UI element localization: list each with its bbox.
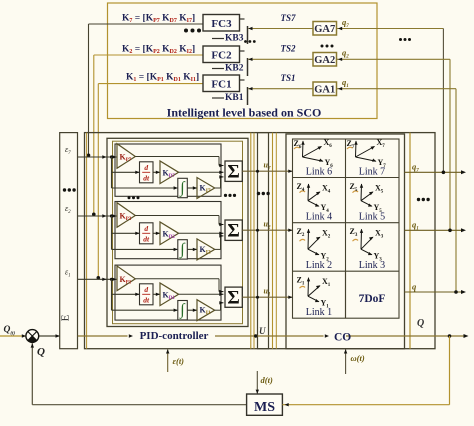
wire epsilon2 error input line (78, 214, 117, 217)
svg-text:Link 4: Link 4 (306, 212, 332, 223)
wire integrator to KI row 1 (187, 309, 197, 312)
wire olive channel line a (250, 133, 252, 349)
label Intelligent level based on SCO (167, 106, 322, 120)
wire link grid row divider 3 (293, 270, 400, 272)
wire integral path row 7 (112, 186, 178, 189)
svg-text:Σ: Σ (227, 288, 239, 309)
comparator summing junction (26, 330, 39, 343)
wire integrator to KI row 7 (187, 186, 197, 189)
wire TS2 tuning signal GA2 to KB2 (248, 58, 313, 61)
label U (259, 326, 266, 336)
wire epsilon7 error input line (78, 155, 117, 158)
svg-text:Intelligent level based on SCO: Intelligent level based on SCO (167, 106, 322, 120)
label 7DoF (359, 293, 386, 305)
label q7 at GA7 (342, 17, 349, 29)
svg-text:KB1: KB1 (225, 93, 244, 103)
block FC1 fuzzy controller (203, 75, 240, 92)
svg-text:PID-controller: PID-controller (140, 330, 209, 342)
amplifier KD1 (160, 283, 179, 306)
wire link grid row divider 2 (293, 222, 400, 224)
amplifier KI7 (197, 178, 215, 199)
block FC2 fuzzy controller (203, 46, 240, 63)
block integrator row 7 (178, 178, 188, 197)
label Qref (4, 325, 16, 337)
label K1 = [KP1 KD1 KI1] (126, 73, 199, 84)
label Link 1 (306, 307, 332, 318)
svg-text:CO: CO (334, 331, 351, 343)
summer Sigma row 7 (225, 161, 242, 183)
node Link 4 coordinate frame (297, 182, 331, 214)
wire FC2 output stub (240, 50, 245, 52)
svg-text:TS7: TS7 (280, 13, 296, 23)
wire branch vertical row 2 (111, 216, 113, 249)
node Link 5 coordinate frame (350, 182, 384, 214)
wire K7 parameter line from FC3 to PID input (87, 24, 203, 157)
wire FC3 output stub (240, 18, 245, 20)
box E error vector channel (60, 133, 78, 349)
wire d/dt to KD row 7 (153, 171, 160, 174)
label Link 7 (359, 166, 385, 177)
wire integral path row 1 (112, 309, 178, 312)
label q7 output (412, 162, 419, 174)
label q1 output (412, 220, 419, 232)
wire top feedback rectangle (intelligent level outer olive box) (108, 3, 378, 119)
label Q output (417, 318, 424, 329)
wire q1 feedback into GA1 (337, 87, 457, 292)
wire epsilon(t) stub (166, 349, 169, 372)
box PID inner frame (113, 141, 243, 324)
label omega(t) (351, 353, 365, 363)
svg-text:GA7: GA7 (314, 24, 335, 35)
label K7 = [KP7 KD7 KI7] (122, 14, 195, 25)
wire epsilon1 error input line (78, 278, 117, 281)
svg-text:FC2: FC2 (211, 50, 232, 62)
dots between GA7 and GA2 (321, 45, 334, 48)
block d/dt differentiator row 7 (140, 162, 154, 183)
wire Qref input (0, 334, 26, 337)
wire integral path row 2 (112, 248, 178, 251)
svg-text:TS2: TS2 (280, 44, 296, 54)
svg-text:7DoF: 7DoF (359, 293, 386, 305)
label TS7 (280, 13, 296, 23)
wire TS7 tuning signal GA7 to KB3 (248, 27, 313, 30)
dots under KB3 (244, 40, 256, 43)
wire olive companion line inside outer box (86, 133, 88, 349)
amplifier KP2 (117, 203, 135, 228)
svg-text:d: d (144, 285, 148, 294)
wire TS1 tuning signal GA1 to KB1 (248, 87, 313, 90)
wire link1 cell right edge (345, 271, 347, 318)
amplifier KI2 (197, 239, 215, 260)
wire KD2 output to sum (179, 232, 224, 235)
label q1 at GA1 (342, 77, 349, 89)
dots in U channel (257, 192, 270, 195)
wire q1 output line (405, 228, 467, 232)
wire KD1 output to sum (179, 293, 224, 296)
svg-text:d: d (144, 163, 148, 172)
label E rotated (60, 314, 72, 321)
summer Sigma row 1 (225, 287, 242, 309)
svg-text:Link 1: Link 1 (306, 307, 332, 318)
svg-text:dt: dt (143, 234, 150, 243)
svg-text:TS1: TS1 (280, 73, 295, 83)
svg-text:Link 5: Link 5 (359, 212, 385, 223)
wire FC1 output stub (240, 79, 245, 81)
label Link 6 (306, 166, 332, 177)
label KB3 knowledge base (212, 26, 248, 44)
label PID-controller (140, 330, 209, 342)
wire link grid row divider 1 (293, 177, 400, 179)
dots top right feedback (399, 38, 411, 41)
block d/dt differentiator row 2 (140, 223, 154, 244)
block FC3 fuzzy controller (203, 15, 240, 32)
label CO (334, 331, 351, 343)
svg-text:ω(t): ω(t) (351, 353, 365, 363)
label Link 2 (306, 260, 332, 271)
block integrator row 2 (178, 240, 188, 259)
node Link 2 coordinate frame (297, 227, 331, 262)
amplifier KI1 (197, 300, 215, 321)
wire q7 output line (405, 170, 467, 174)
wire KP1 output (135, 279, 223, 294)
wire integrator to KI row 2 (187, 248, 197, 251)
svg-text:U: U (259, 326, 266, 336)
label u2 (264, 220, 271, 231)
wire KP7 output (135, 157, 223, 168)
label Q feedback at junction (37, 346, 45, 358)
wire K1 parameter line from FC1 to PID input (97, 84, 204, 280)
label q output (412, 282, 417, 292)
svg-text:dt: dt (143, 295, 150, 304)
box U control vector channel (258, 133, 269, 349)
amplifier KD2 (160, 222, 179, 245)
wire u2 control line to CO (242, 229, 292, 232)
box PID-controller (107, 138, 248, 326)
wire feedback vertical into junction (31, 343, 34, 405)
svg-text:FC3: FC3 (211, 18, 232, 30)
svg-text:GA1: GA1 (314, 85, 335, 96)
label u1 (264, 287, 271, 298)
label Link 3 (359, 260, 385, 271)
wire KD7 output to sum (179, 171, 224, 174)
amplifier KD7 (160, 161, 179, 184)
block integrator row 1 (178, 301, 188, 320)
box CO controlled object (286, 134, 405, 349)
block GA7 genetic algorithm (313, 22, 337, 36)
svg-text:ε(t): ε(t) (173, 356, 185, 366)
label epsilon(t) (173, 356, 185, 366)
svg-text:E: E (60, 314, 72, 321)
label KB2 knowledge base (212, 58, 248, 76)
box PID group 2 frame (115, 202, 221, 259)
wire d/dt to KD row 1 (153, 293, 160, 296)
wire olive channel line b (253, 133, 255, 349)
wire q1 output line (405, 290, 467, 294)
wire q2 feedback into GA2 (337, 58, 451, 231)
svg-text:KB3: KB3 (225, 34, 244, 44)
node Link 3 coordinate frame (350, 227, 384, 262)
wire omega(t) stub (344, 349, 347, 374)
label epsilon2 (65, 204, 71, 215)
svg-text:Q: Q (37, 346, 45, 358)
svg-text:Σ: Σ (227, 221, 239, 242)
label u7 (264, 161, 271, 172)
node Link 7 coordinate frame (347, 138, 387, 169)
wire olive channel line d (275, 133, 277, 349)
label q2 at GA2 (342, 48, 349, 60)
wire branch vertical row 1 (111, 279, 113, 310)
box link grid (293, 139, 400, 318)
box PID group 1 frame (115, 265, 221, 320)
label epsilon1 (65, 267, 71, 278)
block MS measurement system (247, 394, 283, 415)
dots in E channel (63, 188, 76, 191)
wire d/dt to KD row 2 (153, 232, 160, 235)
wire u1 control line to CO (242, 296, 292, 299)
label TS2 (280, 44, 296, 54)
svg-text:d(t): d(t) (261, 375, 273, 385)
wire K2 parameter line from FC2 to PID input (92, 55, 203, 216)
svg-text:MS: MS (254, 400, 275, 415)
dots between PID groups left (128, 196, 140, 199)
label epsilon7 (65, 145, 71, 156)
wire branch vertical row 7 (111, 157, 113, 188)
wire olive channel line c (272, 133, 274, 349)
svg-text:d: d (144, 224, 148, 233)
wire d(t) stub (256, 371, 259, 394)
wire KP2 output (135, 216, 223, 227)
label K2 = [KP2 KD2 KI2] (122, 45, 195, 56)
box PID group 7 frame (115, 144, 221, 196)
svg-text:Q: Q (417, 318, 424, 329)
svg-text:KB2: KB2 (225, 64, 244, 74)
svg-text:GA2: GA2 (314, 55, 335, 66)
label Link 5 (359, 212, 385, 223)
block d/dt differentiator row 1 (140, 284, 154, 305)
node Link 1 coordinate frame (297, 276, 331, 310)
svg-text:Link 7: Link 7 (359, 166, 385, 177)
dots between K7 and K2 labels (184, 29, 201, 33)
node Link 6 coordinate frame (294, 138, 334, 169)
svg-text:FC1: FC1 (211, 79, 231, 91)
summer Sigma row 2 (225, 220, 242, 242)
wire q7 feedback into GA7 (337, 27, 444, 172)
wire feedback bottom line right (282, 336, 449, 406)
wire link grid column divider (345, 139, 347, 318)
wire KI7 output to sum (215, 175, 224, 188)
label TS1 (280, 73, 295, 83)
amplifier KP1 (117, 266, 135, 291)
box outer middle section (85, 133, 436, 349)
block GA2 genetic algorithm (313, 53, 337, 67)
dots in Q channel (417, 198, 430, 201)
amplifier KP7 (117, 144, 135, 169)
wire KI1 output to sum (215, 301, 224, 310)
wire feedback bottom line left (32, 404, 246, 406)
dots below Sigma1 (224, 194, 236, 197)
wire derivative path row 1 (112, 293, 140, 296)
wire Q channel left olive line (409, 133, 411, 349)
label KB1 knowledge base (212, 87, 248, 105)
wire derivative path row 7 (112, 171, 140, 174)
wire derivative path row 2 (112, 232, 140, 235)
svg-text:Σ: Σ (227, 162, 239, 183)
label Link 4 (306, 212, 332, 223)
wire u7 control line to CO (242, 170, 292, 173)
svg-text:Link 6: Link 6 (306, 166, 332, 177)
wire main signal line (39, 334, 469, 338)
wire KI2 output to sum (215, 234, 224, 249)
block GA1 genetic algorithm (313, 82, 337, 96)
svg-text:Link 3: Link 3 (359, 260, 385, 271)
label d(t) (261, 375, 273, 385)
svg-text:dt: dt (143, 173, 150, 182)
svg-text:Link 2: Link 2 (306, 260, 332, 271)
